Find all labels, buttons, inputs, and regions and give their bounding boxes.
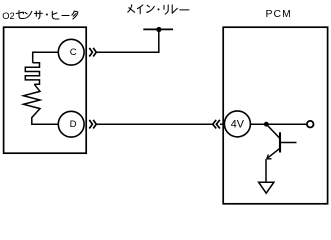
main relay feed wire (vertical drop) [96,29,159,52]
svg-text:O2: O2 [2,10,15,21]
サ [34,11,42,19]
ン [25,11,32,18]
wire from resistor to connector D [32,123,59,126]
transistor Q1 base bar [279,132,281,152]
・ [158,8,160,10]
resistor (zigzag) [24,84,41,123]
label メイン・リレー [128,5,189,14]
svg-text:4V: 4V [231,119,245,131]
box O2 sensor heater [4,27,87,153]
connector arrows at PCM input (<<) [213,120,220,129]
メ [128,5,135,13]
transistor Q1 collector [266,124,280,138]
connector arrows at C (>>) [89,48,96,57]
label O2センサ・ヒータ [2,10,78,21]
ン [147,5,155,12]
box PCM [223,27,327,204]
タ [72,11,78,19]
イ [137,5,143,14]
レ [172,5,177,13]
connector D (terminal circle) [58,111,84,137]
・ [46,14,48,16]
transistor Q1 emitter with arrow [267,148,280,158]
junction dot on relay bar [156,27,161,32]
wire from connector D to PCM [96,123,212,125]
junction node dot [264,122,269,127]
ー [62,15,69,17]
ー [180,9,189,11]
wire from 4V to output terminal [250,123,306,125]
terminal 4V (circle) [224,111,250,137]
output terminal (open circle) [307,121,314,128]
セ [16,11,24,19]
heater element (square meander) [25,63,39,85]
wire emitter to ground [265,159,267,182]
svg-text:PCM: PCM [266,9,292,20]
transistor Q1 base lead [280,142,297,144]
connector arrows at D (>>) [89,120,96,129]
ヒ [52,11,59,19]
connector C (terminal circle) [58,39,84,65]
svg-text:D: D [70,119,77,130]
wire stub into 4V terminal [220,123,225,125]
リ [164,5,168,14]
svg-text:C: C [70,47,77,58]
ground symbol [259,182,274,193]
wire from connector C to heater [33,52,59,63]
main relay bus bar [143,28,173,30]
